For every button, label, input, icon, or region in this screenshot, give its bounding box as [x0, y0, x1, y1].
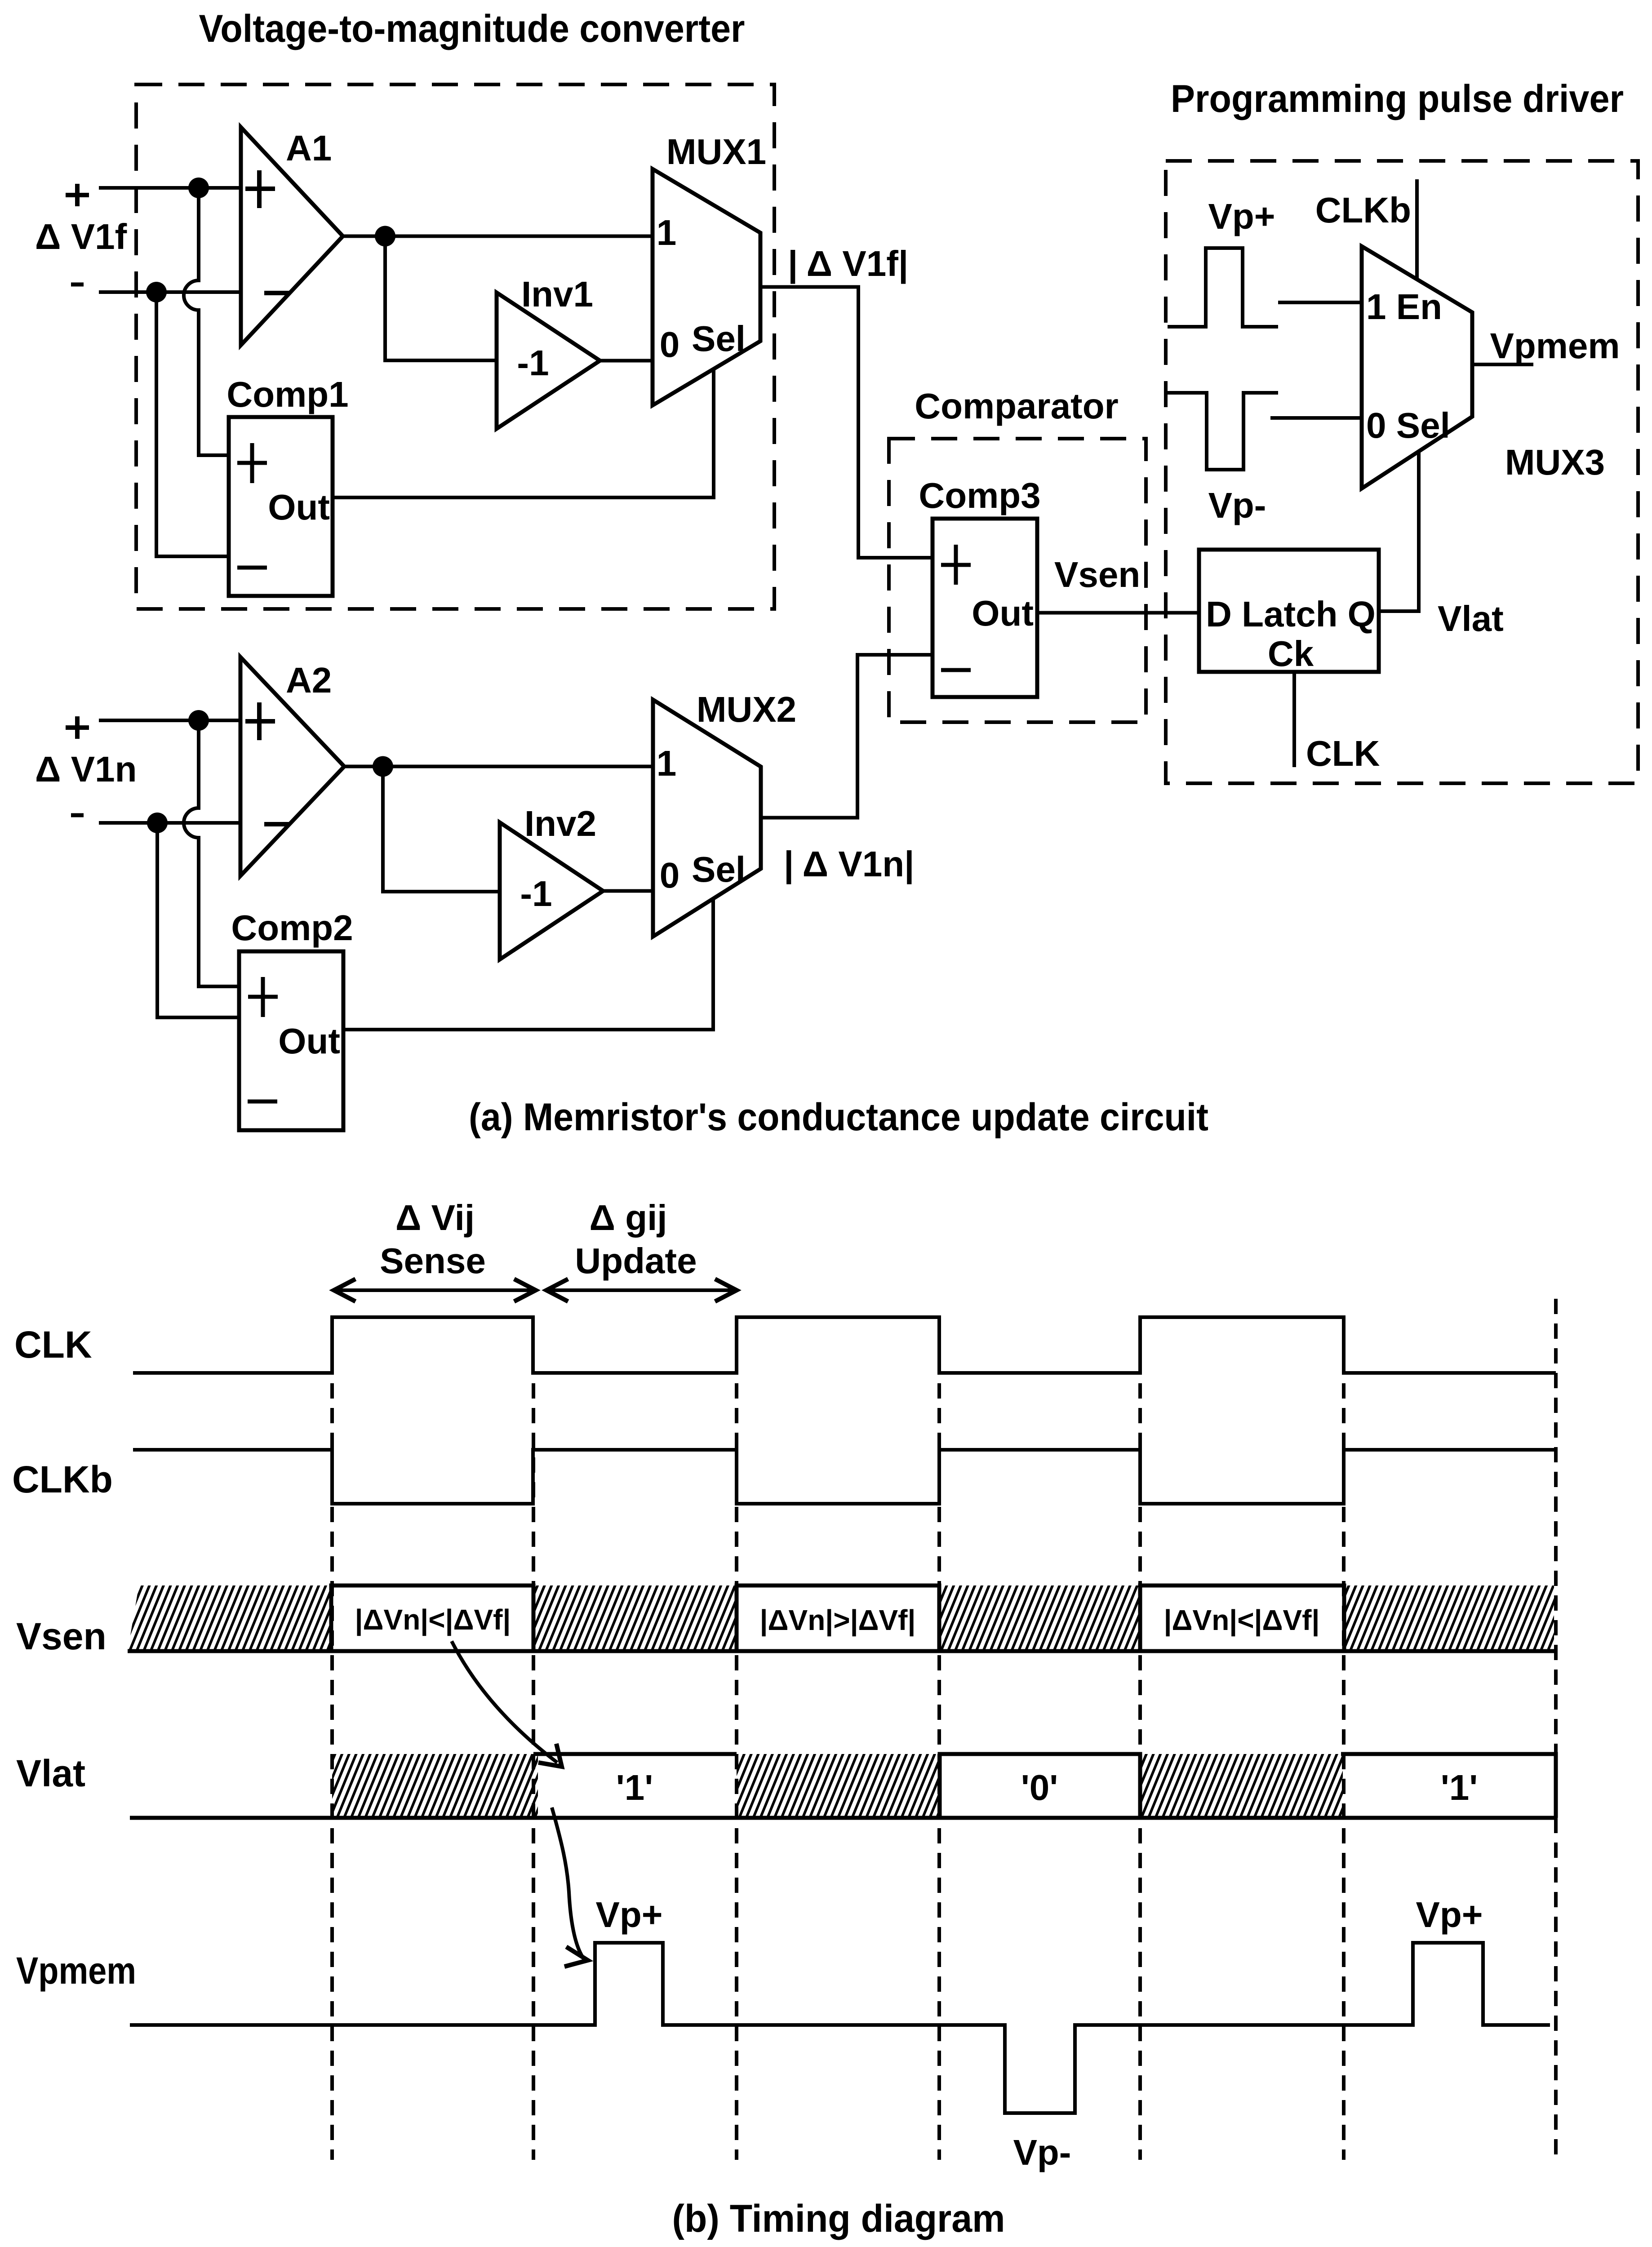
svg-text:Vp+: Vp+: [1416, 1895, 1483, 1935]
svg-text:A2: A2: [286, 660, 332, 700]
svg-text:CLKb: CLKb: [12, 1458, 113, 1501]
svg-text:Vp-: Vp-: [1208, 485, 1266, 525]
svg-text:0 Sel: 0 Sel: [1366, 405, 1450, 445]
svg-text:Vpmem: Vpmem: [1490, 326, 1620, 366]
svg-text:1 En: 1 En: [1366, 287, 1442, 327]
svg-text:Comp1: Comp1: [226, 374, 348, 414]
svg-text:Vpmem: Vpmem: [16, 1949, 136, 1992]
svg-text:| Δ V1n|: | Δ V1n|: [784, 844, 914, 884]
svg-text:Vp-: Vp-: [1013, 2132, 1071, 2172]
svg-text:0: 0: [660, 324, 680, 364]
svg-text:Out: Out: [268, 487, 330, 527]
svg-text:Sel: Sel: [692, 319, 746, 359]
svg-text:Vp+: Vp+: [596, 1895, 663, 1935]
svg-text:|ΔVn|<|ΔVf|: |ΔVn|<|ΔVf|: [355, 1603, 511, 1636]
svg-text:Δ V1n: Δ V1n: [35, 749, 137, 789]
svg-text:Programming pulse driver: Programming pulse driver: [1171, 77, 1624, 120]
svg-text:Inv2: Inv2: [524, 804, 596, 844]
svg-text:Voltage-to-magnitude converter: Voltage-to-magnitude converter: [199, 7, 745, 50]
svg-text:MUX2: MUX2: [697, 689, 796, 729]
svg-text:|ΔVn|<|ΔVf|: |ΔVn|<|ΔVf|: [1164, 1604, 1320, 1637]
svg-text:Vsen: Vsen: [1054, 555, 1140, 595]
svg-text:Vlat: Vlat: [1438, 599, 1504, 639]
svg-text:CLK: CLK: [14, 1323, 92, 1366]
svg-text:CLK: CLK: [1306, 733, 1380, 773]
svg-text:Vp+: Vp+: [1208, 196, 1275, 236]
svg-text:Update: Update: [575, 1241, 697, 1281]
svg-text:0: 0: [660, 855, 680, 895]
svg-text:|ΔVn|>|ΔVf|: |ΔVn|>|ΔVf|: [760, 1604, 916, 1637]
svg-text:CLKb: CLKb: [1315, 190, 1411, 230]
svg-text:Comp2: Comp2: [231, 908, 353, 948]
svg-text:Sel: Sel: [692, 849, 746, 889]
svg-text:MUX1: MUX1: [666, 132, 766, 172]
svg-text:Vlat: Vlat: [16, 1752, 85, 1794]
svg-text:D Latch Q: D Latch Q: [1206, 594, 1376, 634]
svg-text:(a) Memristor's conductance up: (a) Memristor's conductance update circu…: [469, 1096, 1208, 1139]
svg-text:'1': '1': [616, 1767, 653, 1807]
svg-text:Sense: Sense: [380, 1241, 486, 1281]
svg-text:-1: -1: [520, 874, 552, 914]
svg-text:Out: Out: [972, 593, 1034, 633]
svg-text:Ck: Ck: [1268, 634, 1314, 674]
svg-text:(b) Timing diagram: (b) Timing diagram: [672, 2197, 1005, 2240]
svg-text:Out: Out: [278, 1021, 340, 1061]
svg-text:A1: A1: [286, 128, 332, 168]
svg-text:'0': '0': [1021, 1767, 1058, 1807]
svg-text:-1: -1: [517, 343, 549, 383]
svg-text:1: 1: [657, 743, 677, 783]
svg-text:Δ Vij: Δ Vij: [395, 1198, 475, 1238]
svg-text:MUX3: MUX3: [1505, 442, 1605, 482]
svg-text:Inv1: Inv1: [521, 274, 593, 314]
svg-text:Comp3: Comp3: [919, 475, 1040, 515]
svg-text:'1': '1': [1441, 1767, 1478, 1807]
svg-text:Vsen: Vsen: [16, 1615, 107, 1657]
svg-text:1: 1: [657, 213, 677, 253]
svg-text:Comparator: Comparator: [915, 386, 1118, 426]
svg-text:| Δ V1f|: | Δ V1f|: [788, 244, 908, 284]
svg-text:Δ gij: Δ gij: [589, 1198, 667, 1238]
svg-text:Δ V1f: Δ V1f: [35, 217, 127, 257]
